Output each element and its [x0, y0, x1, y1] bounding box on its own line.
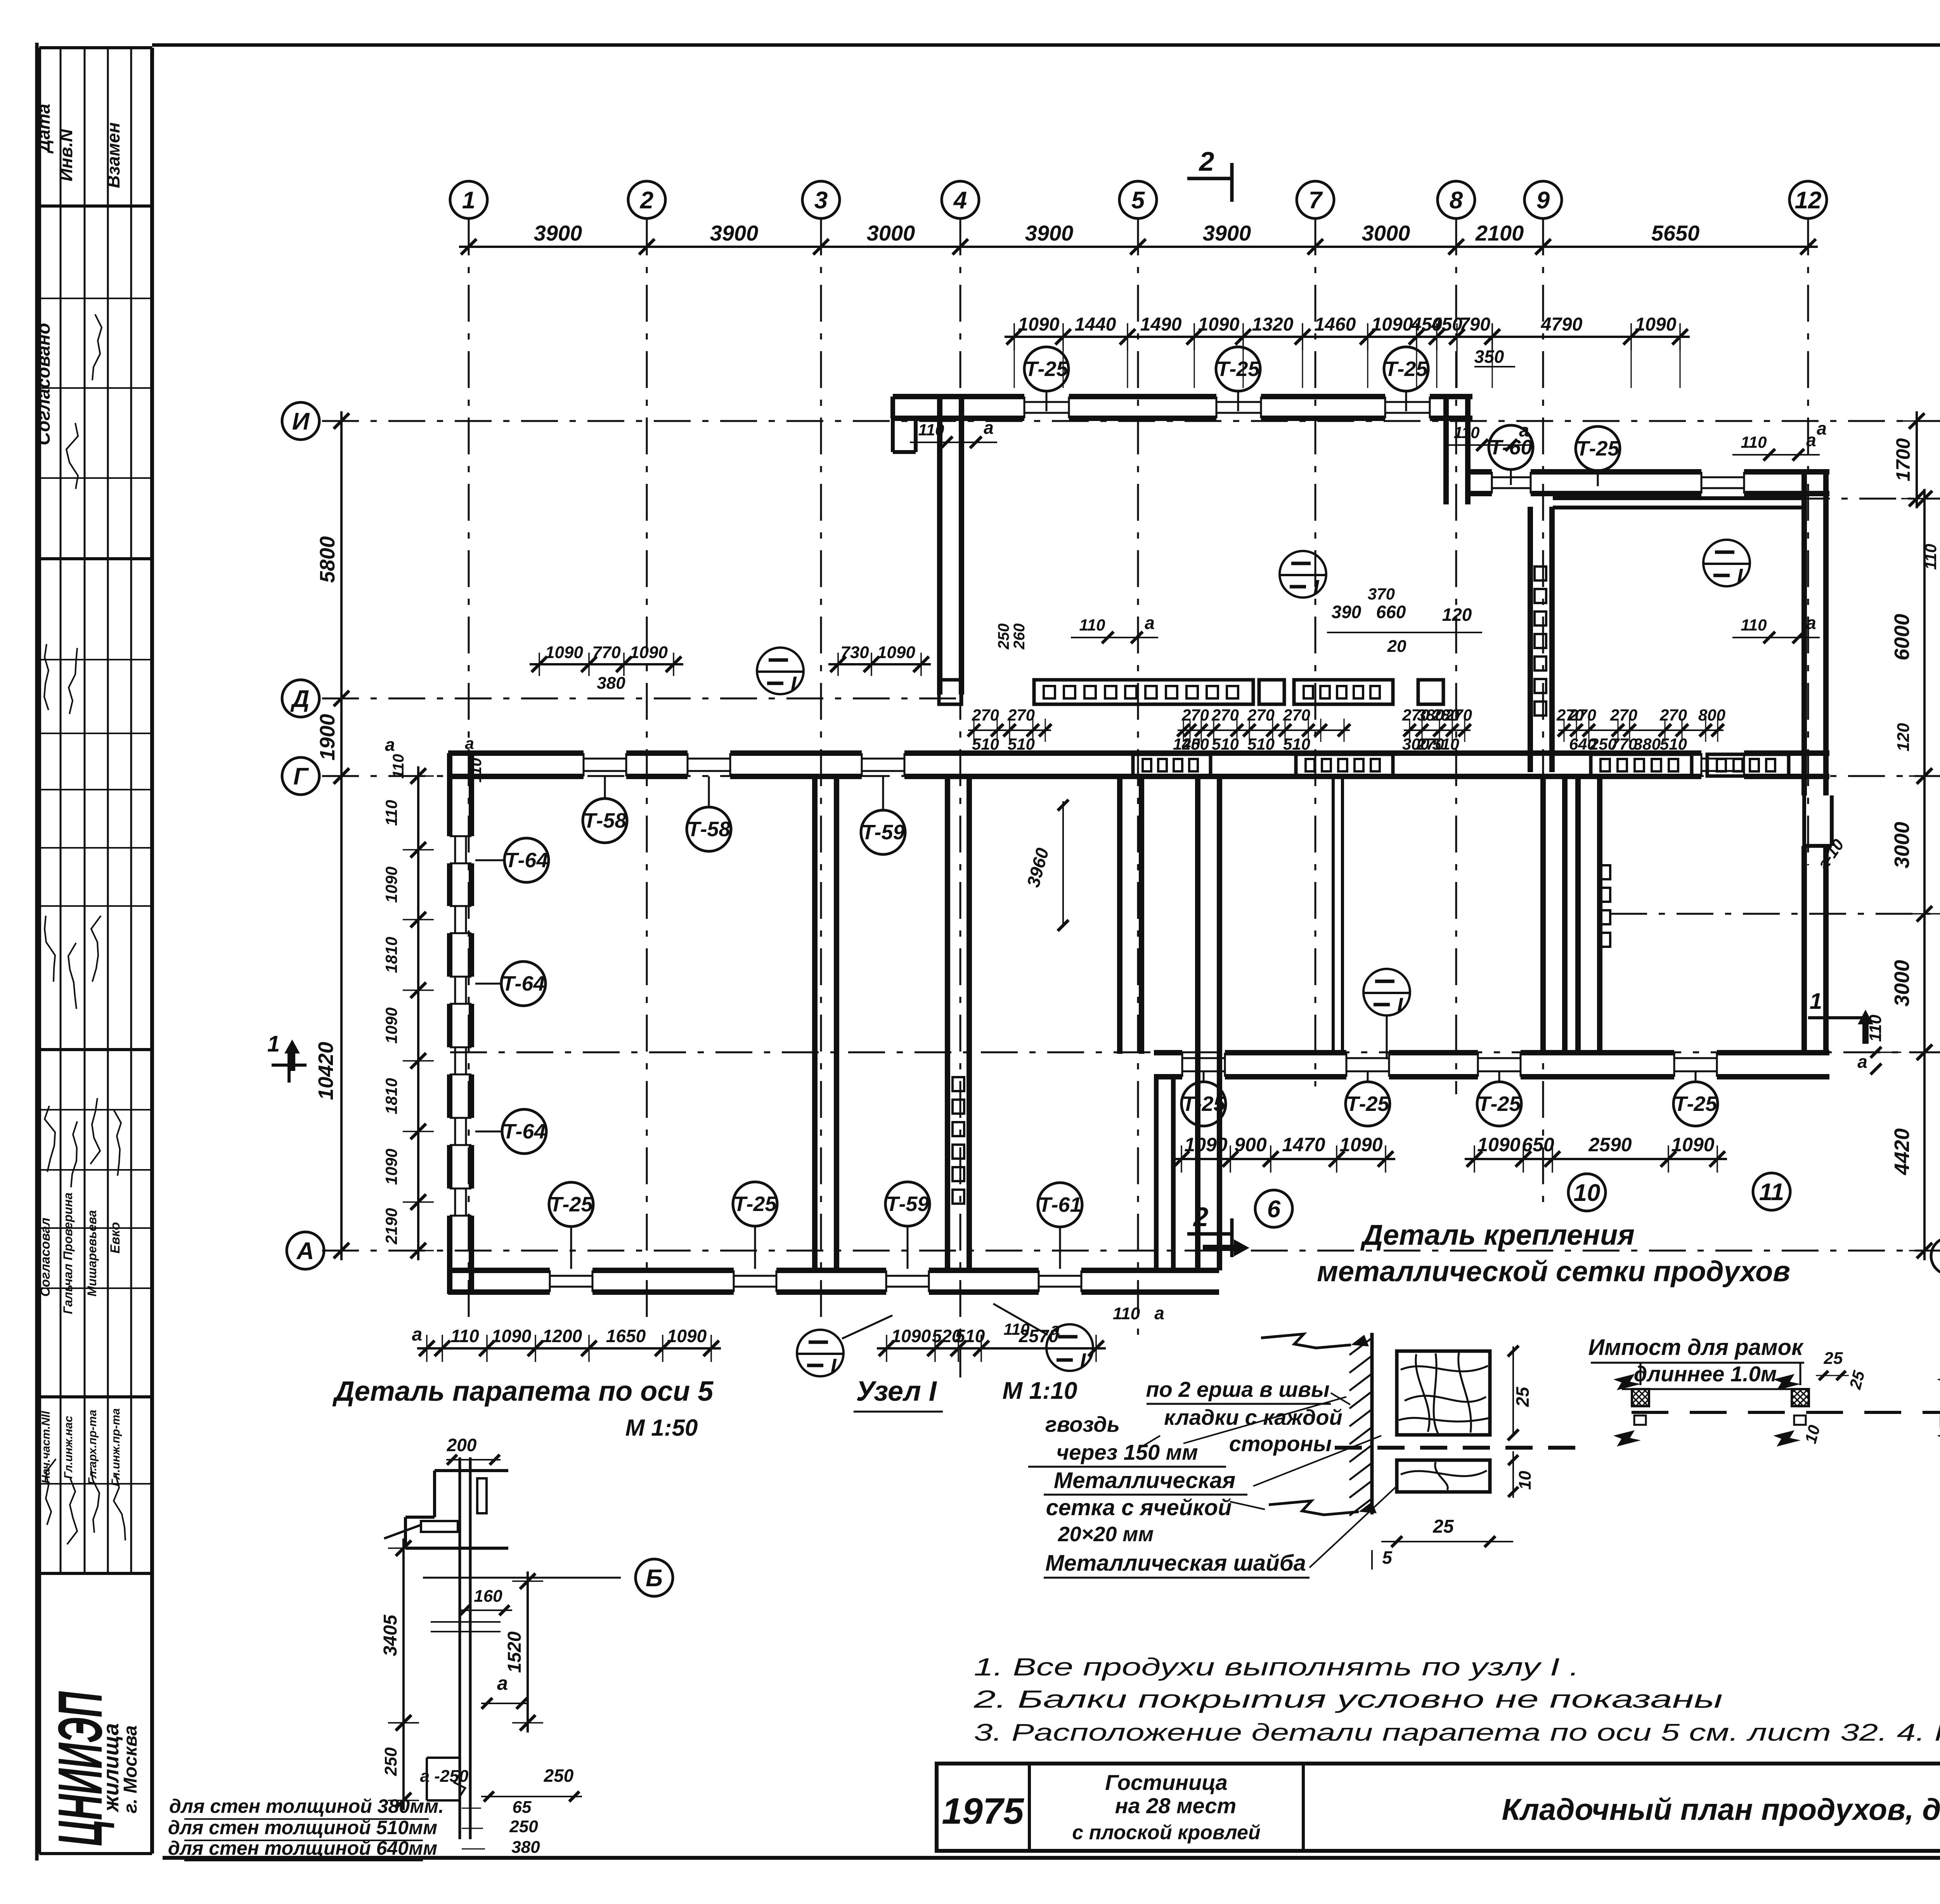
- svg-text:110: 110: [1866, 1014, 1885, 1042]
- svg-text:110: 110: [1079, 616, 1105, 634]
- svg-text:110: 110: [1741, 433, 1767, 451]
- svg-text:270: 270: [1445, 706, 1472, 724]
- svg-text:2100: 2100: [1475, 221, 1524, 245]
- svg-text:Нач.част.Nll: Нач.част.Nll: [40, 1411, 52, 1484]
- svg-text:для стен толщиной 380мм.: для стен толщиной 380мм.: [169, 1795, 444, 1817]
- svg-text:Согласовано: Согласовано: [33, 323, 54, 445]
- svg-text:4: 4: [953, 187, 967, 214]
- svg-text:8: 8: [1450, 187, 1463, 214]
- svg-text:270: 270: [1247, 706, 1275, 724]
- svg-text:380: 380: [1633, 735, 1661, 753]
- svg-text:1090: 1090: [382, 1007, 400, 1043]
- svg-text:250: 250: [381, 1747, 400, 1776]
- svg-text:370: 370: [1368, 585, 1395, 603]
- svg-text:2: 2: [1193, 1202, 1209, 1232]
- svg-text:1650: 1650: [606, 1326, 646, 1346]
- svg-text:1090: 1090: [1198, 314, 1240, 335]
- svg-text:1900: 1900: [316, 714, 339, 761]
- svg-text:110: 110: [1741, 616, 1767, 634]
- svg-text:Т-25: Т-25: [1674, 1092, 1717, 1116]
- svg-text:Гл.арх.пр-та: Гл.арх.пр-та: [86, 1410, 99, 1485]
- svg-text:Т-25: Т-25: [1182, 1092, 1225, 1116]
- svg-text:Гостиница: Гостиница: [1105, 1770, 1228, 1795]
- svg-text:1520: 1520: [504, 1631, 525, 1673]
- svg-text:4420: 4420: [1890, 1128, 1914, 1175]
- svg-text:110: 110: [1004, 1320, 1030, 1338]
- svg-text:через 150 мм: через 150 мм: [1056, 1440, 1198, 1464]
- svg-text:650: 650: [1522, 1134, 1554, 1156]
- svg-text:a -250: a -250: [420, 1767, 469, 1786]
- svg-text:a: a: [412, 1324, 423, 1345]
- svg-text:260: 260: [1011, 624, 1028, 650]
- svg-text:1700: 1700: [1892, 438, 1914, 481]
- svg-text:Деталь парапета по оси 5: Деталь парапета по оси 5: [332, 1376, 714, 1407]
- svg-text:1090: 1090: [630, 643, 668, 662]
- svg-text:270: 270: [1659, 706, 1687, 724]
- svg-text:стороны: стороны: [1229, 1431, 1332, 1456]
- svg-text:Узел I: Узел I: [856, 1376, 937, 1407]
- svg-text:Д: Д: [290, 686, 310, 712]
- svg-text:270: 270: [1610, 706, 1637, 724]
- svg-text:I: I: [1080, 1349, 1086, 1372]
- svg-text:Т-25: Т-25: [1576, 437, 1620, 460]
- svg-text:10: 10: [1574, 1180, 1600, 1206]
- svg-text:2. Балки покрытия условно н: 2. Балки покрытия условно не показаны: [973, 1685, 1723, 1713]
- svg-text:Т-25: Т-25: [733, 1192, 777, 1216]
- svg-text:Т-58: Т-58: [583, 809, 626, 832]
- svg-text:a: a: [1806, 613, 1816, 633]
- svg-text:380: 380: [597, 674, 625, 693]
- svg-text:270: 270: [1211, 706, 1239, 724]
- svg-text:a: a: [1817, 418, 1827, 438]
- svg-text:510: 510: [955, 1326, 985, 1346]
- svg-text:1. Все продухи выполнять по: 1. Все продухи выполнять по узлу I .: [974, 1653, 1579, 1681]
- svg-text:Согласовал: Согласовал: [38, 1218, 53, 1297]
- svg-text:3000: 3000: [1890, 960, 1914, 1007]
- svg-text:1090: 1090: [1339, 1134, 1382, 1156]
- svg-text:металлической сетки продухов: металлической сетки продухов: [1317, 1255, 1790, 1287]
- svg-text:1090: 1090: [492, 1326, 532, 1346]
- svg-text:510: 510: [972, 735, 999, 753]
- svg-text:1090: 1090: [877, 643, 915, 662]
- svg-text:5: 5: [1131, 187, 1145, 214]
- svg-text:1090: 1090: [891, 1326, 931, 1346]
- svg-text:I: I: [790, 672, 797, 696]
- svg-text:a: a: [1519, 420, 1529, 440]
- svg-text:3000: 3000: [1890, 822, 1914, 868]
- svg-text:5650: 5650: [1651, 221, 1700, 245]
- svg-text:I: I: [1313, 576, 1319, 599]
- svg-text:Металлическая шайба: Металлическая шайба: [1045, 1551, 1306, 1576]
- svg-text:510: 510: [1283, 735, 1310, 753]
- svg-text:a: a: [497, 1672, 508, 1694]
- svg-text:5800: 5800: [316, 536, 339, 583]
- svg-text:1: 1: [462, 187, 475, 214]
- svg-text:11: 11: [1759, 1179, 1784, 1206]
- svg-text:А: А: [296, 1238, 314, 1265]
- svg-text:1460: 1460: [1315, 314, 1356, 335]
- svg-text:510: 510: [1432, 735, 1459, 753]
- svg-text:3900: 3900: [1203, 221, 1251, 245]
- svg-text:a: a: [1145, 613, 1155, 633]
- svg-text:1470: 1470: [1282, 1134, 1325, 1156]
- svg-text:a: a: [465, 734, 474, 752]
- svg-text:110: 110: [468, 758, 485, 783]
- svg-text:250: 250: [995, 624, 1012, 650]
- svg-text:20: 20: [1387, 637, 1406, 656]
- svg-text:1090: 1090: [1018, 314, 1060, 335]
- svg-text:Т-64: Т-64: [502, 972, 545, 995]
- svg-text:Т-59: Т-59: [861, 821, 904, 844]
- svg-text:2: 2: [640, 187, 653, 214]
- svg-text:110: 110: [390, 754, 407, 779]
- svg-text:Евко: Евко: [108, 1222, 123, 1253]
- svg-text:110: 110: [1921, 544, 1940, 570]
- svg-text:1090: 1090: [1635, 314, 1677, 335]
- svg-text:I: I: [830, 1355, 837, 1378]
- svg-text:7: 7: [1309, 187, 1323, 214]
- svg-text:4790: 4790: [1541, 314, 1583, 335]
- svg-text:1: 1: [1810, 989, 1822, 1014]
- svg-text:200: 200: [447, 1435, 477, 1455]
- svg-text:1810: 1810: [382, 1078, 400, 1114]
- svg-text:450: 450: [1431, 314, 1462, 335]
- svg-text:1090: 1090: [545, 643, 583, 662]
- svg-text:1090: 1090: [382, 866, 400, 903]
- svg-text:1090: 1090: [1372, 314, 1413, 335]
- svg-text:Дата: Дата: [33, 104, 54, 154]
- svg-text:Т-64: Т-64: [502, 1120, 546, 1143]
- svg-text:110: 110: [1454, 423, 1480, 442]
- svg-text:380: 380: [511, 1838, 540, 1857]
- svg-text:на 28 мест: на 28 мест: [1115, 1793, 1237, 1818]
- svg-text:Т-25: Т-25: [1384, 357, 1428, 381]
- svg-text:a: a: [1051, 1320, 1060, 1339]
- svg-text:Т-25: Т-25: [1216, 357, 1260, 381]
- svg-text:270: 270: [1007, 706, 1035, 724]
- svg-text:1090: 1090: [382, 1149, 400, 1185]
- svg-text:800: 800: [1698, 706, 1725, 724]
- svg-text:Т-61: Т-61: [1038, 1193, 1081, 1216]
- svg-text:1440: 1440: [1075, 314, 1116, 335]
- svg-text:Т-59: Т-59: [886, 1192, 929, 1216]
- svg-text:3000: 3000: [867, 221, 915, 245]
- svg-text:Т-64: Т-64: [505, 849, 548, 872]
- svg-text:1090: 1090: [1184, 1134, 1227, 1156]
- svg-text:I: I: [1737, 565, 1743, 588]
- svg-text:250: 250: [544, 1765, 574, 1786]
- svg-text:Гл.инж.пр-та: Гл.инж.пр-та: [109, 1408, 122, 1486]
- svg-text:1975: 1975: [942, 1791, 1024, 1832]
- svg-text:25: 25: [1432, 1516, 1454, 1537]
- svg-text:6: 6: [1267, 1196, 1281, 1223]
- svg-text:110: 110: [1113, 1304, 1140, 1323]
- svg-text:Т-58: Т-58: [687, 818, 730, 841]
- svg-text:730: 730: [840, 643, 869, 662]
- svg-text:Т-25: Т-25: [1478, 1092, 1521, 1116]
- svg-text:Т-25: Т-25: [1025, 357, 1068, 381]
- svg-text:Г: Г: [293, 763, 309, 790]
- svg-text:110: 110: [382, 800, 400, 826]
- svg-text:3. Расположение детали пара: 3. Расположение детали парапета по оси 5…: [974, 1719, 1940, 1746]
- svg-text:900: 900: [1234, 1134, 1267, 1156]
- svg-text:510: 510: [1008, 735, 1035, 753]
- svg-text:9: 9: [1536, 187, 1550, 214]
- svg-text:a: a: [984, 418, 994, 438]
- svg-text:1320: 1320: [1252, 314, 1294, 335]
- svg-text:3405: 3405: [380, 1614, 401, 1656]
- svg-text:770: 770: [592, 643, 621, 662]
- svg-text:1490: 1490: [1140, 314, 1182, 335]
- svg-text:Гальчал Проверина: Гальчал Проверина: [61, 1192, 75, 1314]
- svg-text:1200: 1200: [542, 1326, 582, 1346]
- svg-text:510: 510: [1247, 735, 1275, 753]
- svg-text:120: 120: [1894, 723, 1913, 752]
- svg-text:270: 270: [1283, 706, 1310, 724]
- svg-text:3000: 3000: [1362, 221, 1410, 245]
- svg-text:110: 110: [918, 421, 944, 439]
- svg-text:2590: 2590: [1588, 1134, 1632, 1156]
- svg-text:3900: 3900: [710, 221, 759, 245]
- svg-text:Мишаревьева: Мишаревьева: [85, 1210, 99, 1297]
- svg-text:1090: 1090: [1477, 1134, 1520, 1156]
- svg-text:Взамен: Взамен: [103, 122, 123, 188]
- svg-text:1: 1: [267, 1031, 280, 1057]
- svg-text:для стен толщиной 510мм: для стен толщиной 510мм: [168, 1817, 437, 1838]
- svg-text:12: 12: [1795, 187, 1822, 214]
- svg-text:2190: 2190: [382, 1208, 400, 1244]
- svg-text:1810: 1810: [382, 937, 400, 973]
- svg-text:М 1:10: М 1:10: [1003, 1377, 1077, 1404]
- svg-text:10420: 10420: [314, 1042, 338, 1100]
- svg-text:1090: 1090: [667, 1326, 707, 1346]
- svg-text:1090: 1090: [1671, 1134, 1714, 1156]
- svg-text:350: 350: [1474, 346, 1504, 367]
- svg-text:гвоздь: гвоздь: [1045, 1412, 1120, 1436]
- svg-text:для стен толщиной 640мм: для стен толщиной 640мм: [168, 1837, 437, 1859]
- svg-text:110: 110: [450, 1326, 479, 1346]
- svg-text:270: 270: [1181, 706, 1209, 724]
- svg-text:390: 390: [1332, 602, 1361, 622]
- svg-text:кладки с каждой: кладки с каждой: [1164, 1405, 1342, 1429]
- svg-text:6000: 6000: [1890, 614, 1914, 660]
- svg-text:Деталь крепления: Деталь крепления: [1360, 1219, 1635, 1251]
- svg-text:жилища: жилища: [99, 1723, 123, 1813]
- svg-text:160: 160: [474, 1587, 502, 1606]
- svg-text:660: 660: [1376, 602, 1406, 622]
- svg-text:3900: 3900: [1025, 221, 1074, 245]
- svg-text:длиннее 1.0м: длиннее 1.0м: [1634, 1362, 1777, 1386]
- svg-text:с плоской кровлей: с плоской кровлей: [1072, 1821, 1260, 1844]
- svg-text:510: 510: [1660, 735, 1687, 753]
- svg-text:I: I: [1397, 994, 1403, 1017]
- svg-text:250: 250: [1181, 735, 1209, 753]
- svg-text:25: 25: [1512, 1386, 1533, 1407]
- svg-text:Т-25: Т-25: [1346, 1092, 1389, 1116]
- svg-text:Импост для рамок: Импост для рамок: [1588, 1335, 1804, 1360]
- svg-text:a: a: [1857, 1052, 1867, 1072]
- svg-text:2: 2: [1199, 146, 1214, 177]
- svg-text:250: 250: [509, 1817, 538, 1836]
- svg-text:3: 3: [814, 187, 828, 214]
- svg-text:5: 5: [1382, 1547, 1393, 1568]
- svg-text:И: И: [292, 408, 310, 435]
- svg-text:120: 120: [1442, 605, 1472, 625]
- svg-text:сетка с ячейкой: сетка с ячейкой: [1046, 1495, 1232, 1520]
- svg-text:20×20 мм: 20×20 мм: [1058, 1523, 1154, 1546]
- svg-text:Т-25: Т-25: [549, 1193, 593, 1216]
- svg-text:a: a: [1806, 430, 1816, 450]
- svg-text:a: a: [385, 735, 395, 755]
- svg-text:270: 270: [1569, 706, 1596, 724]
- svg-text:65: 65: [513, 1798, 532, 1817]
- svg-text:по 2 ерша в швы: по 2 ерша в швы: [1146, 1377, 1329, 1402]
- svg-text:Металлическая: Металлическая: [1054, 1468, 1235, 1493]
- svg-text:Кладочный план продухов, де: Кладочный план продухов, детали.: [1502, 1792, 1940, 1826]
- svg-text:510: 510: [1212, 735, 1239, 753]
- svg-text:10: 10: [1516, 1471, 1535, 1490]
- svg-text:790: 790: [1459, 314, 1490, 335]
- svg-text:г. Москва: г. Москва: [120, 1725, 141, 1813]
- svg-text:Б: Б: [646, 1565, 663, 1592]
- svg-text:25: 25: [1824, 1349, 1843, 1368]
- svg-text:270: 270: [972, 706, 999, 724]
- svg-text:Инв.N: Инв.N: [56, 129, 76, 181]
- svg-text:М 1:50: М 1:50: [625, 1415, 698, 1441]
- svg-text:3900: 3900: [534, 221, 582, 245]
- svg-text:a: a: [1154, 1303, 1164, 1323]
- svg-text:Гл.инж.нас: Гл.инж.нас: [62, 1415, 75, 1479]
